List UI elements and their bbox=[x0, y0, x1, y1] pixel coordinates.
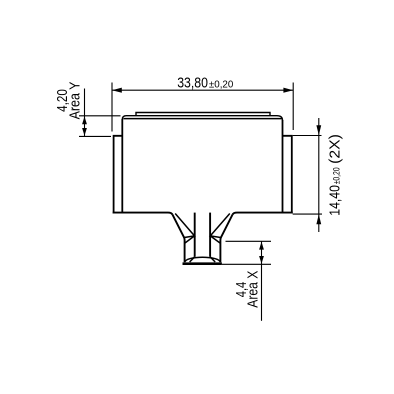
lead tip flare right bbox=[210, 257, 215, 262]
package bottom edge left bbox=[113, 213, 173, 215]
dim 4,20 up arrowhead bbox=[82, 116, 87, 124]
dim 33,80 left arrowhead bbox=[112, 88, 122, 93]
package lid bbox=[136, 113, 270, 116]
lead tip flare left bbox=[190, 257, 195, 262]
svg-text:Area X: Area X bbox=[245, 271, 262, 308]
package body right edge bbox=[282, 120, 284, 214]
dim 4,20 dimension line bbox=[84, 89, 86, 137]
svg-text:33,80: 33,80 bbox=[177, 74, 208, 91]
dim 14,40 dimension line bbox=[318, 118, 320, 232]
svg-text:Area Y: Area Y bbox=[67, 82, 84, 120]
svg-text:±0,20: ±0,20 bbox=[209, 80, 234, 91]
lead tip rim arc bbox=[185, 257, 220, 262]
lead tip bottom edge bbox=[183, 262, 222, 265]
right flange bbox=[283, 136, 292, 214]
dim 14,40 top extension line bbox=[293, 135, 322, 137]
lead funnel inner right bbox=[210, 214, 230, 244]
dim 33,80 left extension line bbox=[111, 83, 113, 132]
package bottom edge right bbox=[232, 213, 292, 215]
dim 33,80 dimension line bbox=[112, 89, 293, 91]
lead bore left wall bbox=[194, 213, 196, 257]
dim 4,4 dimension line bbox=[261, 241, 263, 320]
left flange bbox=[114, 136, 123, 214]
package body left edge bbox=[121, 119, 123, 214]
svg-text:(2X): (2X) bbox=[326, 134, 343, 164]
svg-text:14,40: 14,40 bbox=[326, 185, 343, 216]
package top face inner edge bbox=[123, 118, 281, 120]
lead funnel inner left bbox=[175, 214, 194, 244]
dim 4,4 top extension line bbox=[226, 240, 272, 242]
dim 4,20 down arrowhead bbox=[82, 128, 87, 136]
dim 14,40 bottom extension line bbox=[293, 213, 322, 215]
dim 4,4 up arrowhead bbox=[259, 242, 264, 250]
svg-text:±0,20: ±0,20 bbox=[331, 167, 341, 184]
dim 4,4 bottom extension line bbox=[222, 263, 271, 265]
dim 33,80 right extension line bbox=[292, 83, 294, 131]
package body top edge bbox=[122, 116, 282, 121]
lead funnel outer left bbox=[173, 215, 185, 262]
lead funnel outer right bbox=[220, 215, 232, 262]
dim 14,40 top arrowhead bbox=[316, 125, 321, 135]
dim 14,40 bottom arrowhead bbox=[316, 214, 321, 224]
dim 33,80 right arrowhead bbox=[283, 88, 293, 93]
lead bore right wall bbox=[209, 213, 211, 257]
dim 4,20 top extension line bbox=[79, 115, 121, 117]
dim 4,4 down arrowhead bbox=[259, 256, 264, 264]
dim 4,20 bottom extension line bbox=[79, 135, 111, 137]
